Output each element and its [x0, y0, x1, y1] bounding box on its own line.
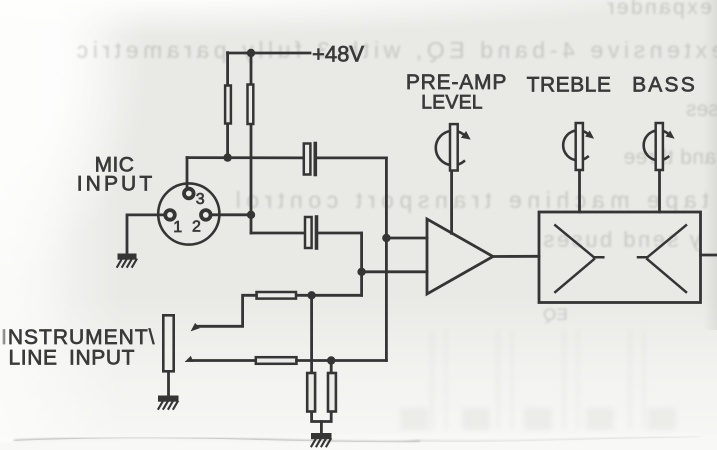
wire upper amp input	[386, 237, 427, 240]
EQ boost-cut symbol right	[638, 225, 686, 292]
svg-text:LINE INPUT: LINE INPUT	[9, 347, 136, 370]
knob PRE-AMP LEVEL	[436, 124, 471, 170]
EQ box U2	[539, 212, 701, 303]
svg-text:BASS: BASS	[632, 74, 697, 97]
left-edge wash	[0, 318, 9, 352]
junction dot pin2 node	[247, 211, 255, 219]
wire R5 top lead	[310, 295, 313, 373]
resistor R5 vertical	[307, 373, 315, 412]
junction dot upper amp input	[382, 234, 390, 242]
wire bass knob to box	[658, 171, 661, 212]
wire right phantom feed vertical	[250, 53, 253, 233]
wire C1 to corner	[315, 156, 386, 159]
ground symbol bottom resistors	[311, 433, 332, 446]
op-amp U1 preamp triangle	[427, 219, 493, 294]
wire pin2 to C2 node	[212, 213, 252, 216]
resistor R6 vertical	[328, 373, 336, 412]
junction dot R3-R5 node	[307, 291, 315, 299]
wire resistor bottoms join	[312, 413, 332, 422]
wire pin1 to ground	[127, 215, 164, 254]
wire pin3 drop	[186, 158, 189, 188]
wire left phantom feed vertical	[226, 53, 229, 158]
resistor R2 phantom right	[248, 85, 254, 125]
capacitor C2 left plate	[305, 217, 312, 248]
junction dot at +48V rail	[247, 49, 255, 57]
wire C2 to corner	[317, 232, 362, 235]
ground symbol instrument jack	[158, 396, 179, 409]
upper jack contact arrow	[191, 323, 200, 332]
wire EQ output	[701, 254, 717, 257]
wire +48V rail	[228, 52, 310, 55]
junction dot pin3 node	[223, 153, 231, 161]
svg-text:LEVEL: LEVEL	[421, 92, 483, 114]
svg-text:INPUT: INPUT	[77, 173, 156, 196]
capacitor C2 right plate	[315, 217, 319, 248]
ground symbol mic input	[117, 254, 136, 267]
svg-text:2: 2	[192, 219, 201, 236]
XLR pin 3	[184, 189, 194, 199]
svg-text:1: 1	[173, 219, 182, 236]
wire R4 to corner up	[297, 359, 387, 362]
wire treble knob to box	[578, 171, 581, 212]
wire ground stub bottom	[320, 422, 323, 434]
wire pin2 node to C2	[251, 232, 305, 235]
knob TREBLE	[563, 123, 594, 170]
wire amp output	[493, 255, 539, 258]
wire preamp level to amp	[450, 172, 453, 234]
svg-text:3: 3	[196, 191, 205, 208]
wire vertical lower bus	[360, 233, 363, 295]
resistor R1 phantom left	[225, 86, 231, 124]
junction dot R6 node	[327, 356, 335, 364]
wire vertical upper bus	[385, 158, 388, 361]
wire pin3 node horizontal to C1	[187, 156, 305, 159]
wire lower line input	[193, 359, 256, 362]
resistor R3 horizontal	[257, 292, 297, 299]
svg-text:TREBLE: TREBLE	[527, 74, 612, 97]
resistor R4 horizontal	[256, 357, 297, 364]
svg-text:+48V: +48V	[312, 42, 364, 67]
capacitor C1 right plate	[313, 144, 317, 175]
faint bleed smudges bottom right	[430, 330, 690, 430]
EQ boost-cut symbol left	[555, 225, 603, 292]
right scan edge shading	[703, 0, 717, 330]
wire R3 left lead to upper contact	[197, 295, 257, 326]
wire R6 top lead	[330, 361, 333, 374]
lower jack contact arrow	[185, 356, 194, 362]
wire lower amp input	[362, 270, 427, 273]
bleed-through mirrored text	[605, 0, 712, 20]
knob BASS	[644, 123, 675, 170]
instrument jack sleeve	[163, 315, 173, 371]
XLR pin 2	[201, 210, 211, 220]
capacitor C1 left plate	[304, 144, 311, 175]
mic XLR connector shell	[158, 183, 219, 244]
junction dot lower amp input	[357, 268, 365, 276]
wire jack ground stub	[167, 372, 170, 396]
XLR pin 1	[165, 210, 175, 220]
wire feedback horizontal	[296, 294, 362, 297]
